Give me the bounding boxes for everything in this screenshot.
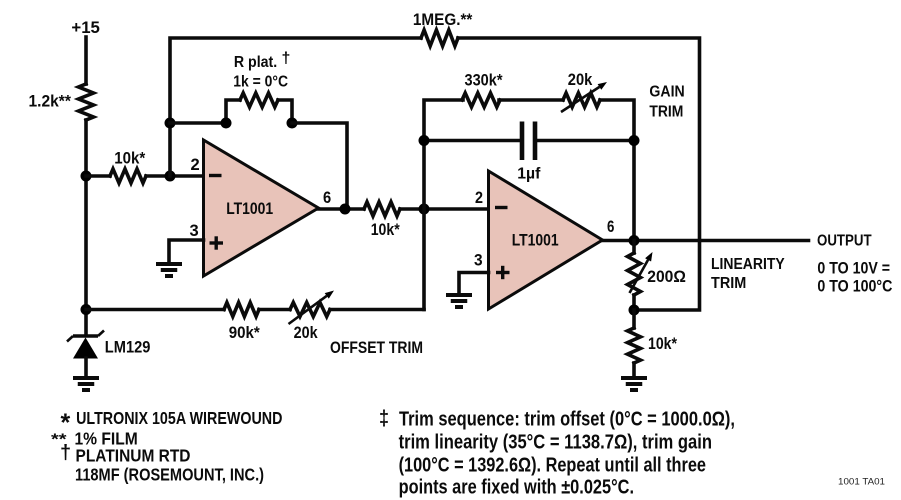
label LINEARITY TRIM [711,256,785,292]
wire Rplat left [170,121,226,125]
resistor R5 10k* series [364,202,400,239]
wire 10k to U2 pin2 [400,207,489,211]
node U2 output junction [629,235,640,246]
pin 2 label U1 [191,155,200,174]
wire 20k to summing vertical [330,308,424,312]
note figure number 1001 TA01 [838,477,885,488]
resistor R2 10k* [110,150,146,183]
pin 6 label U1 [323,188,331,207]
wire 90k to 20k [259,308,290,312]
svg-text:OUTPUT: OUTPUT [817,233,872,250]
svg-text:1k = 0°C: 1k = 0°C [233,74,288,91]
resistor R3 R plat 1k [226,50,292,123]
wire 1MEG to right vertical down to linearity node [458,38,700,310]
wire summing node vertical x=424 [424,100,463,310]
node +15 supply label [71,18,100,37]
note 1% film [51,429,138,449]
svg-text:trim linearity (35°C = 1138.7Ω: trim linearity (35°C = 1138.7Ω), trim ga… [399,432,712,454]
wire 330k to 20k [499,98,563,102]
potentiometer R9 20k offset trim [289,291,335,343]
op-amp U1 LT1001 [204,140,319,276]
node U2 inverting node junction [419,204,430,215]
svg-text:OFFSET TRIM: OFFSET TRIM [330,339,423,357]
wire LM129 node to 90k [86,308,224,312]
wire 20k to right vertical down to U2 out [600,100,634,241]
svg-text:(100°C = 1392.6Ω). Repeat unti: (100°C = 1392.6Ω). Repeat until all thre… [399,455,706,477]
resistor R8 90k* [224,303,260,343]
svg-text:GAIN: GAIN [649,84,684,101]
wire feedback left vertical + top to 1MEG [170,38,421,176]
svg-text:0 TO 10V =: 0 TO 10V = [817,259,890,277]
svg-text:ULTRONIX 105A WIREWOUND: ULTRONIX 105A WIREWOUND [76,408,282,428]
svg-text:†: † [60,442,71,464]
svg-text:‡: ‡ [379,407,389,430]
ground U1 pin3 [156,264,182,276]
ground below LM129 [73,378,99,390]
svg-text:PLATINUM RTD: PLATINUM RTD [76,446,191,466]
svg-text:1.2k**: 1.2k** [29,92,72,111]
svg-text:1MEG.**: 1MEG.** [413,10,473,29]
capacitor C1 1uf [424,122,634,183]
op-amp U2 LT1001 [489,171,603,309]
wire 10k to U1 pin 2 [146,174,204,178]
wire U2 output to OUTPUT [603,239,809,243]
svg-text:330k*: 330k* [465,72,503,90]
svg-text:10k*: 10k* [648,335,677,353]
label OFFSET TRIM [330,339,423,357]
svg-text:LT1001: LT1001 [226,199,273,218]
svg-text:LT1001: LT1001 [512,230,559,249]
node cap right junction [629,135,640,146]
resistor R11 10k* to ground [628,310,678,377]
ground below 10k [621,378,647,390]
potentiometer R10 200ohm linearity trim [628,241,686,311]
node Rplat right junction [287,118,298,129]
svg-text:200Ω: 200Ω [647,267,686,286]
svg-text:1001 TA01: 1001 TA01 [838,477,885,488]
node U1 output junction [340,204,351,215]
node junction feedback/Rplat [165,118,176,129]
svg-text:20k: 20k [294,324,319,342]
svg-text:1µf: 1µf [517,166,541,183]
potentiometer R7 20k gain trim [561,71,607,112]
svg-text:TRIM: TRIM [649,103,683,120]
note asterisk ultronix [61,408,283,437]
wire rail to LM129 [84,120,88,334]
node junction rail/10k [81,171,92,182]
node linearity junction [629,305,640,316]
svg-text:90k*: 90k* [229,324,261,342]
resistor R1 1.2k** [29,84,94,120]
label output range [817,259,892,295]
svg-text:3: 3 [190,221,199,240]
wire U1 out to 10k [319,207,365,211]
svg-text:118MF (ROSEMOUNT, INC.): 118MF (ROSEMOUNT, INC.) [75,465,264,485]
wire U2 pin3 to ground [459,273,489,295]
wire rail to 10k [86,174,110,178]
svg-text:points are fixed with ±0.025°C: points are fixed with ±0.025°C. [399,477,634,499]
node feedback/pin2 junction [165,171,176,182]
wire Rplat right to output vertical [292,123,347,209]
label OUTPUT [817,233,872,250]
note trim sequence [379,407,735,499]
svg-text:TRIM: TRIM [711,275,746,292]
svg-text:10k*: 10k* [371,221,400,239]
node Rplat left junction [221,118,232,129]
note rosemount [75,465,264,485]
svg-text:2: 2 [475,188,483,207]
svg-text:R plat.: R plat. [234,54,277,71]
pin 2 label U2 [475,188,483,207]
node cap left junction [419,135,430,146]
svg-text:6: 6 [607,217,614,236]
ground U2 pin3 [446,295,472,307]
note platinum rtd [60,442,191,466]
resistor R6 330k* [462,72,503,107]
pin 3 label U1 [190,221,199,240]
svg-text:Trim sequence: trim offset (0°: Trim sequence: trim offset (0°C = 1000.0… [399,409,735,431]
resistor R4 1MEG.** [413,10,473,46]
svg-text:†: † [282,50,291,67]
svg-text:+15: +15 [71,18,100,37]
label GAIN TRIM [649,84,684,121]
wire +15 rail top [84,37,88,84]
zener D1 LM129 [67,331,150,378]
pin 3 label U2 [474,251,483,270]
svg-text:6: 6 [323,188,331,207]
svg-text:3: 3 [474,251,483,270]
svg-text:LINEARITY: LINEARITY [711,256,785,273]
svg-text:10k*: 10k* [114,150,146,168]
svg-text:LM129: LM129 [105,337,151,356]
node junction rail/offset-trim [81,304,92,315]
svg-text:0 TO 100°C: 0 TO 100°C [817,278,892,296]
wire U1 pin3 to ground [169,240,204,263]
svg-text:2: 2 [191,155,200,174]
svg-text:20k: 20k [568,71,593,89]
pin 6 label U2 [607,217,614,236]
